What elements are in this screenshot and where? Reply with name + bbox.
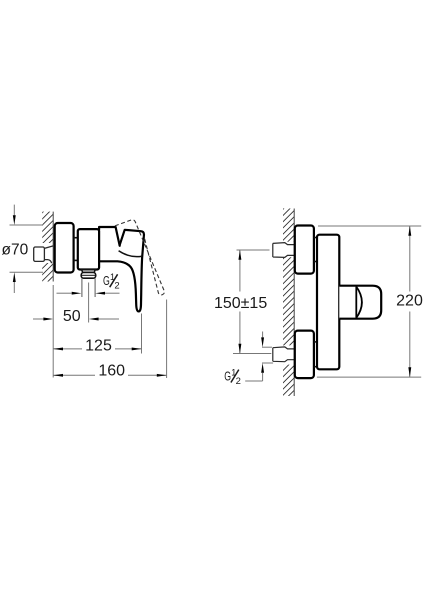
dimension 160: arrows (53, 374, 63, 377)
valve front section top edge (99, 227, 120, 246)
bottom flange (right view) (295, 331, 314, 379)
outlet centerline (88, 283, 90, 323)
dimension ø70: arrows (13, 215, 16, 225)
dimension ø70: extension lines (10, 205, 44, 293)
bottom neck (314, 342, 317, 367)
dimension 150±15: arrows (238, 250, 241, 260)
mixer body (right view) (317, 235, 339, 370)
handle (right view, pointing at viewer) (339, 286, 381, 319)
dimension 125: arrows (53, 347, 63, 350)
dimension G1/2 (left view): label (103, 272, 120, 292)
dimension 50: arrows (43, 318, 53, 321)
wall hatch (left view) (41, 200, 55, 295)
wall face line (right view) (293, 209, 295, 397)
svg-text:160: 160 (98, 363, 125, 380)
handle cap lower curve (119, 251, 142, 257)
supply elbow behind wall (34, 246, 54, 263)
svg-text:220: 220 (396, 293, 423, 310)
handle inner chord (355, 287, 357, 318)
top supply pipe (273, 243, 294, 258)
handle cap and lever (solid, closed position) (99, 230, 144, 312)
handle inner arc (356, 287, 362, 318)
dimension G1/2 (right view): label (224, 367, 241, 387)
flange (escutcheon, side view) (55, 223, 74, 273)
wall face line (52, 212, 54, 282)
svg-text:G: G (103, 273, 110, 288)
neck between flange and body (74, 238, 78, 261)
top flange (right view) (295, 226, 314, 274)
bottom supply pipe (273, 347, 294, 362)
mixer body (cartridge housing) (78, 229, 99, 269)
svg-text:125: 125 (85, 338, 112, 355)
svg-text:2: 2 (114, 281, 119, 292)
dimension 220: extension lines (317, 226, 421, 377)
dimension 50: lines (33, 285, 119, 378)
outlet adapter below body (82, 270, 96, 273)
svg-text:50: 50 (63, 308, 81, 325)
dimension 160: lines (53, 300, 166, 379)
svg-text:G: G (224, 369, 231, 384)
top neck (314, 238, 317, 262)
svg-text:2: 2 (236, 376, 241, 387)
svg-text:ø70: ø70 (2, 242, 29, 259)
dimension G1/2 (right view): arrows and leader (245, 332, 273, 382)
outlet pipe G1/2 (82, 278, 95, 297)
dimension G1/2 (left view): arrows (72, 292, 82, 295)
svg-text:150±15: 150±15 (214, 295, 267, 312)
dimension 150±15: extension lines (233, 250, 271, 354)
outlet nut (81, 272, 96, 278)
dimension 220: arrows (408, 226, 411, 236)
dimension 125: lines (53, 314, 141, 354)
handle raised position (dashed) (115, 220, 164, 295)
dimension G1/2 (left view): lines (57, 292, 120, 294)
wall hatch (right view) (282, 197, 296, 409)
